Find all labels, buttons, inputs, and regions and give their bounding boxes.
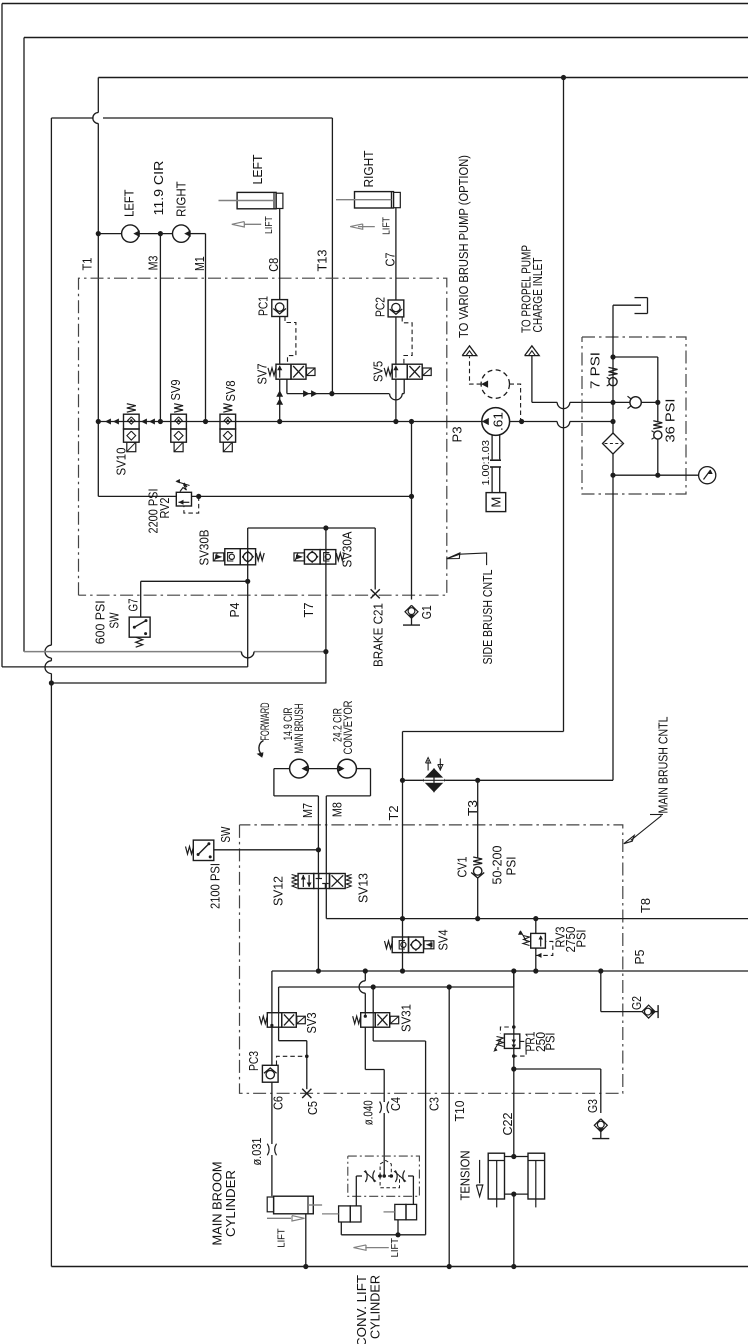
wire C22 upper	[513, 1048, 515, 1156]
node dot rail-T1	[96, 419, 101, 424]
wire hop return over C7	[390, 394, 403, 400]
wire main rail	[98, 421, 482, 423]
svg-text:SV30B: SV30B	[196, 529, 211, 565]
wire tension drop	[513, 1194, 515, 1266]
check valve charge line	[630, 397, 641, 408]
svg-text:T7: T7	[301, 603, 316, 618]
wire M1 line	[205, 234, 207, 422]
wire C4 lower	[383, 1113, 385, 1176]
svg-text:LEFT: LEFT	[121, 190, 136, 217]
wire T1 vertical	[97, 78, 99, 113]
orifice C6	[267, 1144, 269, 1156]
node dot rail-M3	[158, 419, 163, 424]
svg-text:PSI: PSI	[573, 930, 588, 948]
spring RV3	[523, 936, 530, 946]
wire G2 branch	[600, 971, 602, 1012]
node dot rail-G1	[409, 419, 414, 424]
node dot T1-rail	[96, 231, 101, 236]
node dot SV30A top	[323, 525, 328, 530]
wire SW link	[214, 849, 319, 851]
svg-text:LIFT: LIFT	[381, 217, 392, 235]
node dot T2-y918	[400, 916, 405, 921]
valve SV10	[124, 414, 140, 429]
wire charge inlet line	[531, 356, 533, 403]
wire hop rail over x563	[557, 422, 570, 428]
svg-text:CONVEYOR: CONVEYOR	[341, 700, 355, 754]
valve RV3	[531, 933, 546, 948]
pilot dashed vario right	[510, 384, 521, 421]
svg-text:TO VARIO BRUSH PUMP (OPTIO: TO VARIO BRUSH PUMP (OPTION)	[456, 155, 471, 338]
pilot dashed PC1-SV7	[285, 317, 296, 365]
wire hop y651 over P4	[241, 652, 254, 658]
valve SV12 SV13 block	[298, 874, 314, 889]
svg-text:C6: C6	[271, 1096, 286, 1110]
svg-text:M7: M7	[300, 803, 315, 818]
orifice C4	[380, 1102, 382, 1114]
wire T13 vertical	[331, 118, 333, 394]
tension arrow	[479, 1160, 481, 1183]
valve SV4	[385, 941, 393, 949]
node dot x657 y475	[655, 473, 660, 478]
node dot x613 y357	[610, 354, 615, 359]
spring PR1	[497, 1037, 504, 1047]
node dot x613 y475	[610, 473, 615, 478]
pump main .61	[482, 408, 510, 436]
svg-text:C3: C3	[427, 1097, 442, 1111]
wire T13 top link	[51, 117, 93, 119]
wire hop y987 over sv31feed	[359, 981, 365, 993]
wire conv left drop	[355, 1176, 357, 1206]
svg-text:SV13: SV13	[355, 873, 370, 903]
svg-text:T1: T1	[79, 258, 94, 271]
gauge port G2	[642, 1005, 655, 1018]
svg-text:CYLINDER: CYLINDER	[223, 1170, 238, 1237]
valve SV8	[220, 414, 236, 429]
wire rail P5 y971	[272, 970, 748, 972]
node dot C22 split	[511, 1066, 516, 1071]
node dot SV31feed-y971	[363, 968, 368, 973]
wire T2 through SV4	[402, 937, 404, 971]
node dot conv bottom	[395, 1232, 400, 1237]
wire rail sv3 y971 corner	[271, 971, 273, 1013]
wire conv right drop	[412, 1176, 414, 1204]
wire x657 branch	[657, 357, 659, 422]
svg-text:RIGHT: RIGHT	[174, 181, 189, 217]
wire hop x98 over y118	[93, 113, 99, 124]
wire frame2 left	[23, 38, 25, 652]
node dot RV3 top	[533, 916, 538, 921]
wire M7 below valve	[317, 874, 319, 889]
svg-text:SV3: SV3	[304, 1013, 319, 1034]
plug X C21	[371, 589, 380, 598]
wire x563 long vertical	[563, 78, 565, 732]
wire M3 line	[159, 234, 161, 422]
pump shaft	[491, 435, 493, 460]
svg-text:G1: G1	[419, 605, 434, 619]
wire SV31 feed	[364, 971, 366, 981]
wire T10	[448, 987, 450, 1267]
svg-text:M: M	[489, 497, 504, 508]
wire T1 top rail	[98, 77, 748, 79]
svg-text:SW: SW	[218, 826, 233, 842]
svg-text:G3: G3	[585, 1099, 600, 1113]
valve SV7	[268, 368, 276, 376]
wire G1 vertical	[411, 422, 413, 600]
svg-text:SW: SW	[106, 612, 121, 628]
svg-text:SV4: SV4	[435, 930, 450, 951]
svg-text:RV2: RV2	[157, 498, 172, 519]
wire hop charge over x563	[557, 402, 570, 408]
svg-text:MAIN BRUSH CNTL: MAIN BRUSH CNTL	[655, 717, 670, 814]
flow arrows rail left	[105, 419, 111, 425]
leader SIDE BRUSH CNTL	[447, 553, 487, 565]
svg-text:PC3: PC3	[246, 1051, 261, 1071]
side brush cntl boundary box	[79, 278, 447, 595]
wire motor rail y234	[98, 233, 122, 235]
svg-text:M3: M3	[146, 256, 161, 271]
lift arrow conv	[365, 1247, 389, 1249]
check 7 PSI	[609, 367, 618, 375]
svg-text:SIDE BRUSH CNTL: SIDE BRUSH CNTL	[480, 570, 495, 665]
wire y731 link	[403, 731, 564, 733]
cylinder RIGHT lift body	[355, 192, 394, 208]
svg-text:7 PSI: 7 PSI	[587, 352, 602, 389]
wire hop x51 over y651	[45, 645, 51, 658]
check PC2	[388, 300, 404, 317]
pressure switch 2100psi	[193, 840, 214, 860]
node dot M7-y971	[316, 968, 321, 973]
wire C7 from cylinder	[395, 208, 397, 300]
svg-text:T8: T8	[638, 898, 653, 913]
motor M7 main brush	[290, 759, 309, 778]
valve SV5	[384, 368, 392, 376]
svg-text:C7: C7	[382, 253, 397, 267]
wire main broom drop	[305, 1214, 307, 1267]
pilot dashed conv roof	[380, 1161, 391, 1177]
wire SV5 return up	[403, 379, 405, 393]
wire y780 line	[403, 779, 423, 781]
valve PR1	[504, 1034, 519, 1048]
svg-text:LIFT: LIFT	[277, 1228, 288, 1247]
node dot y987 x373	[371, 984, 376, 989]
cooler diamond	[422, 768, 445, 792]
pilot dashed PC2-SV5	[402, 317, 412, 364]
node dot x613 y402	[610, 400, 615, 405]
spring switch 600psi	[136, 637, 143, 647]
svg-text:1.00:1.03: 1.00:1.03	[480, 440, 492, 486]
wire RV2 out	[192, 495, 413, 497]
wire rail T8 y918	[340, 918, 748, 920]
node dot T3 y780	[475, 778, 480, 783]
wire frame2 top	[24, 37, 748, 39]
filter group boundary box	[582, 337, 686, 494]
wire C7 SV5-rail	[395, 379, 397, 421]
svg-text:M1: M1	[192, 256, 207, 271]
svg-text:36 PSI: 36 PSI	[662, 399, 677, 443]
cylinder conv right rod	[384, 1211, 395, 1213]
svg-text:CHARGE INLET: CHARGE INLET	[530, 258, 545, 333]
node dot T7 y651	[323, 649, 328, 654]
wire T3 line	[477, 780, 479, 858]
wire RV2 feed	[98, 495, 176, 497]
svg-text:MAIN BRUSH: MAIN BRUSH	[292, 704, 306, 754]
check CV1	[473, 857, 482, 865]
svg-text:CV1: CV1	[454, 857, 469, 878]
cylinder tension right	[528, 1153, 545, 1199]
cylinder RIGHT lift rod	[336, 199, 391, 201]
wire C8 PC1-SV7	[279, 317, 281, 365]
svg-text:TENSION: TENSION	[458, 1151, 473, 1201]
svg-text:C22: C22	[500, 1113, 515, 1136]
filter element	[612, 422, 614, 434]
cylinder conv left	[339, 1206, 351, 1222]
gearbox M	[486, 493, 506, 512]
wire y652 gray line	[24, 651, 241, 653]
flow arrows up C8	[276, 390, 283, 397]
svg-text:C8: C8	[266, 258, 281, 272]
motor RIGHT side brush	[173, 225, 190, 242]
node dot x51 y683	[49, 680, 54, 685]
pressure gauge	[699, 467, 716, 484]
wire T2 line	[402, 732, 404, 938]
svg-text:T13: T13	[314, 250, 329, 272]
node dot rail-M1	[203, 419, 208, 424]
svg-text:50-200: 50-200	[489, 846, 504, 885]
node dot M3 top	[158, 231, 163, 236]
node dot tension top	[511, 1154, 516, 1159]
lift arrow main broom	[267, 1217, 291, 1219]
offpage triangle TO PROPEL	[525, 346, 540, 356]
svg-text:2100 PSI: 2100 PSI	[207, 863, 222, 909]
pilot dashed vario left	[470, 357, 482, 385]
wire x51 long vertical	[50, 118, 52, 645]
pressure switch 600psi	[129, 617, 150, 637]
wire y475 gauge line	[613, 474, 699, 476]
svg-text:PC2: PC2	[372, 297, 387, 317]
svg-text:SV31: SV31	[398, 1004, 413, 1032]
check PC3	[262, 1065, 278, 1082]
wire motor loop	[274, 768, 290, 770]
valve SV30A	[294, 553, 305, 561]
svg-text:LIFT: LIFT	[390, 1238, 401, 1257]
wire SV31 outB C3	[372, 987, 374, 1013]
wire T7 drop	[325, 564, 327, 683]
wire SV31 outA C4	[364, 1027, 366, 1069]
wire C21 drop	[374, 528, 376, 590]
wire C8 SV7-rail	[279, 379, 281, 421]
node dots conv center	[378, 1174, 382, 1178]
wire SV3 out	[278, 1013, 280, 1027]
spring switch 2100psi	[186, 847, 194, 855]
flow arrows right return	[303, 390, 310, 397]
wire C8 from cylinder	[279, 209, 281, 300]
node dot T10-rail	[447, 1264, 452, 1269]
wire M8 below valve	[325, 874, 327, 889]
pilot dashed PC3	[277, 1056, 307, 1065]
valve RV2	[176, 492, 191, 506]
wire conv bottoms	[340, 1222, 342, 1235]
svg-text:SV7: SV7	[254, 364, 269, 385]
svg-text:SV10: SV10	[113, 448, 128, 476]
node dot y987 x449	[447, 984, 452, 989]
svg-text:.61: .61	[492, 412, 506, 431]
svg-text:11.9 CIR: 11.9 CIR	[151, 161, 166, 216]
svg-text:FORWARD: FORWARD	[258, 702, 272, 740]
node dot x657 y402	[655, 400, 660, 405]
cylinder main broom	[267, 1197, 273, 1212]
wire return line y393	[287, 393, 389, 395]
wire G3 branch	[514, 1068, 601, 1070]
node dot SW-M7	[316, 847, 321, 852]
wire outer frame top	[2, 3, 748, 5]
node dot RV2 pilot	[196, 494, 201, 499]
svg-text:G7: G7	[126, 599, 141, 612]
node dot T2-y971	[400, 968, 405, 973]
wire rail y987	[278, 987, 280, 1013]
svg-text:ø.040: ø.040	[361, 1100, 376, 1125]
svg-text:ø.031: ø.031	[249, 1138, 264, 1166]
svg-text:C4: C4	[388, 1097, 403, 1111]
conv flow boundary box	[348, 1156, 420, 1196]
svg-text:SV5: SV5	[370, 361, 385, 382]
node dot rail-C8	[277, 419, 282, 424]
svg-text:T3: T3	[465, 800, 480, 816]
pilot dashed PR1 upper	[500, 1027, 508, 1034]
reservoir bracket	[613, 304, 641, 306]
plug X C5	[302, 1089, 311, 1098]
node dot P4-G7	[245, 579, 250, 584]
gauge port G3	[594, 1119, 607, 1132]
node dot dashed drop	[519, 419, 524, 424]
flow arrows rail mid	[141, 419, 147, 425]
wire tension top link	[505, 1156, 529, 1158]
main brush cntl boundary box	[240, 825, 623, 1093]
node dot RV3 bottom	[533, 968, 538, 973]
node dot T2 y780	[400, 778, 405, 783]
orifice conv left	[365, 1170, 367, 1182]
wire P4 drop	[247, 565, 249, 667]
cylinder conv right	[395, 1204, 406, 1219]
motor M8 conveyor	[338, 759, 357, 778]
svg-text:SV30A: SV30A	[339, 531, 354, 567]
valve SV30B	[213, 553, 224, 561]
gauge port G1	[405, 605, 418, 618]
svg-text:BRAKE C21: BRAKE C21	[370, 603, 385, 667]
svg-text:LEFT: LEFT	[250, 155, 265, 185]
svg-text:P3: P3	[449, 427, 464, 443]
motor LEFT side brush	[122, 225, 139, 242]
wire SV30 top link	[248, 527, 376, 529]
spring RV2	[180, 483, 187, 492]
lift arrow right cyl	[358, 226, 375, 228]
cylinder conv left rod	[322, 1213, 339, 1215]
node dot T3-y918	[475, 916, 480, 921]
pilot dashed conv box	[380, 1176, 399, 1188]
svg-text:P4: P4	[227, 603, 242, 618]
svg-text:CYLINDER: CYLINDER	[367, 1275, 382, 1339]
svg-text:G2: G2	[629, 996, 644, 1010]
wire conv orifice rail	[356, 1175, 362, 1177]
wire C7 PC2-SV5	[395, 317, 397, 364]
node dot tension-rail	[511, 1264, 516, 1269]
leader MAIN BRUSH CNTL	[631, 815, 661, 841]
pilot dashed RV2	[184, 496, 199, 513]
cylinder main broom rod	[308, 1204, 322, 1206]
wire rail pump-right	[510, 421, 558, 423]
wire SV7 return down	[286, 379, 288, 393]
node dot rail-C7	[393, 419, 398, 424]
svg-text:P5: P5	[632, 950, 647, 965]
wire hop x51 over y667	[45, 661, 51, 674]
check 36 PSI	[653, 421, 662, 429]
lift arrow left cyl	[244, 223, 261, 225]
offpage triangle TO VARIO	[462, 346, 477, 356]
wire G7 link	[141, 580, 248, 582]
wire C6 through PC3	[271, 1025, 273, 1065]
svg-text:SV9: SV9	[168, 380, 183, 401]
valve SV3	[259, 1016, 267, 1024]
svg-text:LIFT: LIFT	[264, 216, 275, 234]
svg-text:PSI: PSI	[542, 1033, 557, 1051]
node dot G1 line y496	[409, 494, 414, 499]
svg-text:PSI: PSI	[503, 857, 518, 876]
svg-text:M8: M8	[330, 802, 345, 817]
valve SV31	[353, 1016, 361, 1024]
wire y683 line	[51, 682, 326, 684]
wire charge to filter	[570, 401, 630, 403]
cylinder tension left	[488, 1153, 504, 1199]
wire outer frame left	[1, 4, 3, 667]
node dot tension bottom	[511, 1192, 516, 1197]
node dot PR1-y971	[511, 968, 516, 973]
pilot dashed PR1 lower	[514, 1041, 526, 1056]
node dot G2-y971	[598, 968, 603, 973]
svg-text:SV8: SV8	[223, 381, 238, 402]
wire PR1 feed	[513, 971, 515, 1034]
valve SV9	[171, 414, 187, 429]
svg-text:SV12: SV12	[270, 876, 285, 906]
wire x613 charge branch	[612, 305, 614, 421]
svg-text:T2: T2	[386, 806, 401, 821]
wire C6 lower	[271, 1155, 273, 1196]
cylinder LEFT lift body	[237, 192, 276, 208]
pump vario dashed	[481, 370, 509, 398]
node dot broom-rail	[303, 1264, 308, 1269]
cylinder LEFT lift rod	[219, 200, 275, 202]
svg-text:RIGHT: RIGHT	[361, 151, 376, 188]
wire rail to filter	[570, 421, 613, 423]
svg-text:C5: C5	[305, 1101, 320, 1115]
node dot at x563 y77	[561, 75, 566, 80]
svg-text:T10: T10	[452, 1101, 467, 1122]
wire tension bottom link	[505, 1193, 529, 1195]
svg-text:PC1: PC1	[255, 296, 270, 316]
wire y667 line	[2, 666, 248, 668]
node dot T13 return	[329, 391, 334, 396]
pilot dashed RV3	[536, 941, 553, 955]
node dot rail end x613	[610, 419, 615, 424]
wire y357 branch	[613, 356, 658, 358]
forward arc	[259, 741, 264, 756]
wire bottom rail	[51, 1266, 748, 1268]
check PC1	[272, 300, 288, 317]
orifice conv right	[395, 1170, 397, 1182]
